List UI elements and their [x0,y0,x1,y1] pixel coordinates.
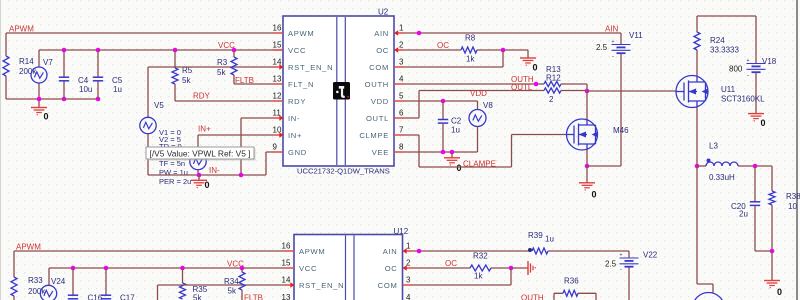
junction dot AIN [417,31,422,36]
svg-text:VCC: VCC [299,264,317,273]
svg-text:SCT3160KL: SCT3160KL [721,95,765,104]
svg-text:V11: V11 [629,31,643,40]
svg-text:200k: 200k [28,287,46,296]
svg-text:C16: C16 [88,294,103,300]
wire IN- pin11 [241,118,273,175]
svg-text:5: 5 [399,92,404,101]
svg-text:-: - [620,267,622,273]
svg-text:OC: OC [376,46,389,55]
svg-text:10u: 10u [79,85,92,94]
resistor R24 [694,16,739,76]
svg-text:APWM: APWM [16,243,41,252]
resistor R33 [11,276,46,300]
svg-text:APWM: APWM [288,29,314,38]
resistor R39 [528,231,554,254]
wire RST_EN_N bottom [158,285,285,300]
ground sideways on OC2 [527,261,529,275]
svg-text:V7: V7 [43,58,53,67]
svg-text:13: 13 [273,75,282,84]
junction dot OC/COM [501,48,506,53]
svg-text:2: 2 [406,259,411,268]
svg-text:IN+: IN+ [198,125,211,134]
svg-text:13: 13 [282,293,291,300]
svg-text:RST_EN_N: RST_EN_N [299,281,344,290]
svg-text:OUTH: OUTH [365,80,389,89]
junction dot OUTH [534,82,539,87]
page border right [796,0,798,300]
svg-text:0: 0 [592,190,597,200]
junction dot VDD [441,99,446,104]
U2 left pin names [288,29,333,157]
wire AIN2 net [413,251,630,258]
svg-text:4: 4 [399,75,404,84]
svg-text:R34: R34 [224,277,239,286]
svg-text:UCC21732-Q1DW_TRANS: UCC21732-Q1DW_TRANS [297,167,390,176]
svg-text:2.5: 2.5 [596,43,608,52]
junction dot R38/C20 [770,249,775,254]
resistor R34 [224,268,245,300]
svg-text:OC: OC [385,264,398,273]
svg-text:0: 0 [777,287,782,297]
svg-text:800: 800 [729,65,743,74]
svg-text:OUTL: OUTL [366,114,389,123]
svg-text:33.3333: 33.3333 [710,46,739,55]
svg-text:7: 7 [399,126,404,135]
U2 TI logo [333,82,350,100]
svg-text:VEE: VEE [372,148,389,157]
svg-text:R33: R33 [28,276,43,285]
svg-text:RDY: RDY [288,97,306,106]
svg-text:CLAMPE: CLAMPE [463,160,496,169]
source V22 [605,251,658,300]
svg-text:2: 2 [549,95,554,104]
svg-text:M46: M46 [613,126,629,135]
svg-text:R3: R3 [217,58,228,67]
svg-text:9: 9 [273,143,278,152]
wire RDY net [175,100,273,102]
svg-text:8: 8 [399,143,404,152]
resistor R8 [461,34,477,64]
ground 0 below M46 [579,166,597,200]
svg-text:15: 15 [273,41,282,50]
svg-text:FLTB: FLTB [244,294,263,300]
svg-text:16: 16 [273,24,282,33]
U2 left pin numbers 16-9 [273,24,282,152]
svg-text:OC: OC [445,259,457,268]
ground 0 below V6 [191,175,210,190]
svg-text:-: - [612,54,614,60]
U12 right pin numbers [406,242,411,300]
svg-text:R24: R24 [710,36,725,45]
wire AIN net [404,33,621,45]
capacitor C2 [438,101,462,152]
svg-text:V8: V8 [483,101,493,110]
source V6 [190,153,206,175]
U2 left pin stubs [273,33,283,152]
svg-text:1k: 1k [466,55,475,64]
wire OC net with resistor R8 [404,50,528,58]
svg-text:2: 2 [399,41,404,50]
svg-text:IN-: IN- [209,166,220,175]
svg-text:AIN: AIN [383,247,398,256]
junction dots bottom rail [37,97,101,102]
source V11 [596,31,643,166]
junction dot U11 source / L3 [695,164,700,169]
svg-text:OUTH: OUTH [521,293,544,300]
source V7 [31,50,53,99]
svg-text:VDD: VDD [371,97,389,106]
wire OUTH net [404,84,587,91]
svg-text:0: 0 [533,63,538,73]
ground 0 below V7 [31,99,49,122]
junction dots IN- rail [197,173,244,178]
svg-text:R38: R38 [786,192,800,201]
ground 0 on OC net [520,58,538,73]
svg-text:COM: COM [378,281,398,290]
U12 right pin names [378,247,398,290]
svg-text:R8: R8 [465,34,476,43]
junction dot M46 source [585,164,590,169]
V5 parameter text [159,128,191,186]
svg-text:R14: R14 [19,57,34,66]
svg-text:1u: 1u [113,85,122,94]
svg-text:15: 15 [282,259,291,268]
svg-text:12: 12 [273,92,282,101]
svg-text:3: 3 [406,276,411,285]
svg-text:AIN: AIN [374,29,389,38]
svg-text:3: 3 [399,58,404,67]
capacitor C5 [93,50,123,99]
svg-text:VCC: VCC [288,46,306,55]
wire APWM2 net [14,251,284,277]
U2 right pin stubs [394,33,404,152]
svg-text:APWM: APWM [9,25,34,34]
resistor R12 [544,74,561,105]
svg-text:PER = 2u: PER = 2u [159,177,191,186]
svg-text:-: - [747,73,749,79]
U2 pin arrows pins 1 2 [394,30,398,53]
svg-text:U12: U12 [394,227,409,236]
svg-text:1k: 1k [474,272,483,281]
capacitor C20 [731,166,772,251]
inductor L3 [697,142,772,192]
source V24 [40,268,65,300]
gate driver U12 [294,227,409,300]
svg-text:0: 0 [205,180,210,190]
junction dots VCC2 [71,266,245,271]
svg-text:16: 16 [282,242,291,251]
svg-text:1u: 1u [451,126,460,135]
svg-text:C2: C2 [451,117,462,126]
svg-text:AIN: AIN [605,25,619,34]
svg-text:APWM: APWM [299,247,325,256]
ground 0 below R38 [764,251,782,297]
svg-text:RDY: RDY [193,92,211,101]
svg-text:4: 4 [406,293,411,300]
svg-text:[/V5 Value: VPWL Ref: V5 ]: [/V5 Value: VPWL Ref: V5 ] [150,149,251,159]
svg-text:5k: 5k [228,287,237,296]
svg-text:C4: C4 [78,76,89,85]
junction dot AIN2 [417,249,422,254]
svg-text:R39: R39 [528,231,543,240]
source V8 [469,101,493,152]
U2 right pin names [359,29,389,157]
svg-text:COM: COM [369,63,389,72]
svg-text:0: 0 [44,112,49,122]
transistor M46 [567,119,630,166]
wire top rail [697,15,756,17]
wire OUTL net [404,91,587,119]
wire IN- rail [148,174,266,176]
svg-text:+: + [612,39,615,45]
source V5 [140,67,165,175]
resistor R13 [544,65,561,87]
svg-text:U2: U2 [378,8,389,17]
svg-text:IN+: IN+ [288,131,302,140]
svg-text:L3: L3 [709,142,718,151]
svg-text:14: 14 [282,276,291,285]
svg-text:V24: V24 [51,277,66,286]
resistor R32 [470,252,491,281]
svg-text:0.33uH: 0.33uH [709,173,735,182]
svg-text:0: 0 [457,163,462,173]
junction dot gate node [585,89,590,94]
svg-text:CLMPE: CLMPE [359,131,389,140]
svg-text:U11: U11 [721,85,736,94]
wire APWM net [6,33,273,99]
resistor R35 [180,268,208,300]
wire gate node to U11 gate and M46 drain [587,91,676,119]
wire GND pin9 [266,152,273,175]
svg-text:VDD: VDD [470,89,487,98]
svg-text:2.5: 2.5 [605,260,617,269]
junction dot OC2 [509,266,514,271]
svg-text:C17: C17 [120,294,135,300]
source V18 [729,16,777,113]
capacitor C4 [59,50,93,99]
svg-text:2u: 2u [739,210,748,219]
svg-text:GND: GND [288,148,307,157]
wire RST_EN_N net [148,66,273,68]
svg-text:+: + [747,58,750,64]
svg-text:1: 1 [399,24,404,33]
svg-text:1: 1 [406,242,411,251]
junction dots VEE [441,150,455,155]
svg-text:V18: V18 [762,57,777,66]
U12 pin stubs [284,251,413,285]
svg-text:R32: R32 [473,252,488,261]
resistor R14 [3,56,37,76]
resistor R36 branch [554,277,596,300]
U2 pin arrows pins 14 11 10 [279,64,283,138]
wire bottom rail to ground [6,98,98,100]
ground 0 on VEE net [444,152,462,173]
svg-text:V5: V5 [154,101,164,110]
wire COM2 net [413,268,512,285]
wire COM net [404,50,503,67]
wire U11 source down to M47 [697,166,713,293]
transistor M47 (clipped) [693,293,725,300]
page border left [0,0,1,300]
resistor R5 [172,50,193,101]
tooltip V5 value box [146,147,256,161]
wire VDD net [404,101,478,110]
wire CLMPE net [404,135,567,168]
svg-text:FLT_N: FLT_N [288,80,314,89]
svg-text:0: 0 [761,118,766,128]
svg-text:R12: R12 [546,74,561,83]
svg-text:OUTL: OUTL [511,83,533,92]
junction dots VCC rail [62,48,237,53]
svg-text:R36: R36 [564,277,579,286]
wire VCC net [39,49,283,51]
wire VCC2 net [49,267,284,269]
wire OC2 net with R32 [413,267,529,269]
junction dot L3/C20 [753,164,758,169]
U12 left pin names [299,247,344,290]
capacitor C16 [68,268,103,300]
svg-text:1u: 1u [545,235,554,244]
wire FLT_N net [234,83,273,85]
resistor R3 [217,50,237,84]
svg-text:5k: 5k [193,294,202,300]
svg-text:FLTB: FLTB [235,76,254,85]
gate driver U2 UCC21732-Q1DW_TRANS [283,8,394,176]
svg-text:10: 10 [788,202,797,211]
svg-text:C5: C5 [112,76,123,85]
svg-text:RST_EN_N: RST_EN_N [288,63,333,72]
svg-text:5k: 5k [217,68,226,77]
svg-text:V22: V22 [643,251,658,260]
U2 right pin numbers 1-8 [399,24,404,152]
transistor U11 SCT3160KL [676,76,765,167]
wire IN+ pin10 [198,135,273,153]
wire VEE net [404,151,478,153]
svg-text:5k: 5k [182,76,191,85]
capacitor C17 [101,268,135,300]
U12 left pin numbers [282,242,291,300]
svg-text:+: + [620,253,623,259]
svg-text:OC: OC [437,41,449,50]
svg-text:IN-: IN- [288,114,300,123]
svg-text:6: 6 [399,109,404,118]
resistor R38 [769,191,800,251]
wire M46 source node [587,165,621,167]
U12 pin arrows [290,248,406,288]
ground 0 below V18 [748,114,766,128]
